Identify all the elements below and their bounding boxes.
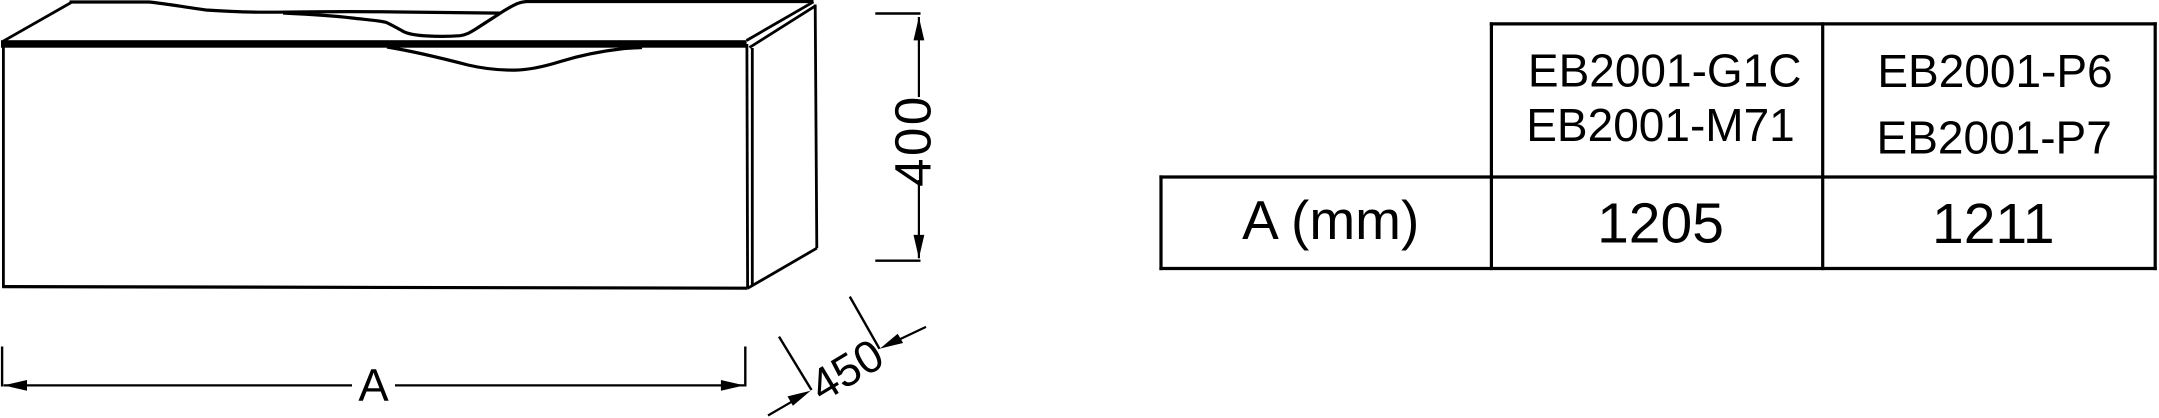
cabinet front face right edge [746, 44, 749, 288]
cabinet worktop front edge (thick) [1, 40, 747, 48]
dimension A left arrowhead [4, 380, 27, 391]
table vertical border between column 1 and column 2 [1821, 22, 1824, 270]
svg-text:A: A [358, 360, 389, 411]
svg-text:400: 400 [885, 94, 942, 187]
table header top border [1490, 22, 2157, 25]
cabinet worktop right side lower diagonal [750, 6, 816, 48]
cabinet side face bottom edge [748, 248, 817, 288]
svg-text:EB2001-P7: EB2001-P7 [1877, 111, 2112, 163]
cabinet worktop back edge with wave dip [70, 2, 501, 13]
dimension 450 right extension tick [850, 297, 880, 349]
cabinet front face left edge [2, 41, 5, 288]
svg-text:1205: 1205 [1597, 192, 1724, 256]
table bottom border [1159, 267, 2156, 270]
dimension A line right segment [395, 384, 744, 386]
table middle horizontal border [1159, 175, 2156, 178]
dimension A line left segment [4, 384, 352, 386]
svg-text:1211: 1211 [1932, 192, 2055, 256]
dimension 450 right arrow tail [893, 327, 926, 343]
svg-text:EB2001-P6: EB2001-P6 [1877, 45, 2112, 97]
table right border [2154, 22, 2157, 270]
dimension 400 bottom arrowhead [914, 235, 925, 258]
svg-text:A (mm): A (mm) [1242, 189, 1419, 251]
dimension 450 left extension tick [779, 337, 812, 390]
cabinet apron wave below worktop [387, 47, 642, 70]
dimension 450 left arrowhead [788, 391, 811, 406]
svg-text:EB2001-M71: EB2001-M71 [1526, 99, 1795, 151]
dimension 400 line lower segment [918, 180, 920, 258]
svg-text:EB2001-G1C: EB2001-G1C [1528, 44, 1802, 96]
table outer and inner borders [1159, 22, 2156, 270]
dimension A right extension tick [744, 347, 746, 387]
cabinet worktop right side upper diagonal [747, 2, 814, 41]
cabinet side panel front edge [751, 48, 754, 286]
cabinet basin depression profile curve [283, 2, 814, 37]
dimension A left extension tick [1, 347, 3, 387]
cabinet top face left diagonal [3, 3, 71, 42]
cabinet front face bottom edge [2, 287, 747, 289]
dimension 400 top arrowhead [914, 17, 925, 40]
dimension A right arrowhead [721, 380, 744, 391]
table vertical border between A cell and column 1 [1490, 22, 1493, 270]
table left border of A row [1159, 175, 1162, 270]
dimension 400 line upper segment [918, 17, 920, 97]
dimension 400 top extension tick [875, 12, 920, 14]
cabinet side face right edge [815, 5, 817, 249]
dimension 450 left arrow tail [768, 397, 800, 416]
dimension 400 bottom extension tick [875, 260, 920, 262]
dimension 450 right arrowhead [880, 334, 903, 349]
